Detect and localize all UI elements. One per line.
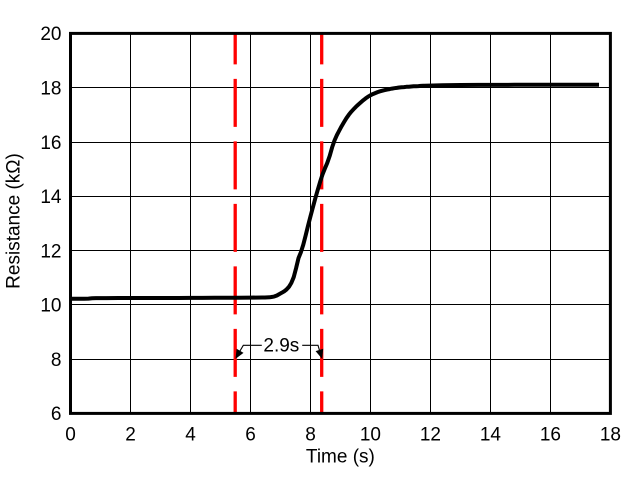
svg-text:8: 8	[51, 350, 62, 371]
annotation arrowhead right	[316, 349, 324, 359]
svg-text:2.9s: 2.9s	[263, 335, 299, 356]
svg-text:Resistance (kΩ): Resistance (kΩ)	[4, 153, 25, 289]
plot frame	[71, 33, 611, 413]
svg-text:10: 10	[360, 424, 381, 445]
svg-text:12: 12	[40, 241, 61, 262]
grid horizontal lines R=8..18	[71, 88, 611, 360]
svg-text:4: 4	[185, 424, 196, 445]
svg-text:8: 8	[305, 424, 316, 445]
svg-text:Time (s): Time (s)	[306, 446, 375, 467]
svg-text:14: 14	[480, 424, 502, 445]
annotation arrowhead left	[236, 349, 244, 359]
svg-text:2: 2	[125, 424, 136, 445]
svg-text:18: 18	[40, 79, 61, 100]
svg-text:12: 12	[420, 424, 441, 445]
svg-text:10: 10	[40, 296, 61, 317]
grid vertical lines t=2..16	[131, 33, 551, 413]
svg-text:0: 0	[65, 424, 76, 445]
annotation leader line left	[236, 345, 262, 357]
svg-text:18: 18	[600, 424, 621, 445]
resistance curve	[71, 85, 600, 299]
svg-text:14: 14	[40, 187, 62, 208]
svg-text:6: 6	[51, 404, 62, 425]
svg-text:6: 6	[245, 424, 256, 445]
svg-text:20: 20	[40, 24, 61, 45]
svg-text:16: 16	[40, 133, 61, 154]
svg-text:16: 16	[540, 424, 561, 445]
red dashed marker line t=5.5s	[234, 33, 237, 413]
annotation leader line right	[302, 345, 321, 357]
red dashed marker line t=8.4s	[320, 33, 323, 413]
